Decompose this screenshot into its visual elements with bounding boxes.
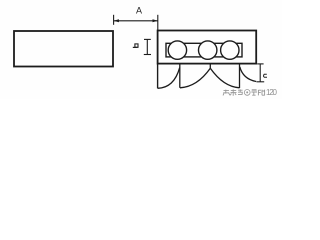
dimension A: right arrowhead bbox=[153, 19, 158, 22]
scallop arc 3 bbox=[210, 68, 239, 88]
scallop vertical V3 bbox=[239, 64, 241, 88]
dimension A: left arrowhead bbox=[114, 19, 119, 22]
die outer rectangle bbox=[158, 31, 257, 64]
label b bbox=[133, 46, 138, 48]
blank circle C1 bbox=[168, 41, 186, 59]
scallop vertical V2 (short) bbox=[209, 64, 211, 69]
scallop vertical V1 bbox=[179, 64, 181, 88]
left blank strip rectangle bbox=[14, 31, 113, 67]
strip band inside die bbox=[166, 43, 242, 57]
dimension b: vertical line bbox=[146, 39, 148, 54]
dimension c: bottom tick bbox=[257, 81, 265, 83]
dimension c: top tick bbox=[257, 63, 263, 65]
watermark @ bbox=[244, 90, 250, 96]
scallop arc 1 bbox=[158, 68, 180, 89]
scallop arc 2 bbox=[180, 68, 210, 88]
dimension A: right extension tick bbox=[157, 15, 159, 31]
scallop arc 4 bbox=[240, 67, 256, 82]
dimension b: bottom tick bbox=[144, 54, 151, 56]
blank circle C3 bbox=[221, 41, 239, 59]
blank circle C2 bbox=[199, 41, 217, 59]
scrap strip left edge bbox=[157, 64, 159, 89]
dimension A: dimension line bbox=[114, 20, 158, 22]
dimension A: left extension tick bbox=[113, 15, 115, 25]
dimension c: vertical line bbox=[259, 64, 261, 82]
svg-text:120: 120 bbox=[266, 88, 278, 97]
svg-text:A: A bbox=[136, 6, 142, 16]
label c bbox=[264, 74, 267, 77]
watermark 头条号@节能120 (drawn as strokes) bbox=[223, 89, 265, 96]
dimension b: top tick bbox=[144, 38, 151, 40]
